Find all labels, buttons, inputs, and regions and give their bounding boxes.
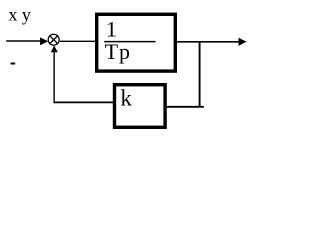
wire: feedback tap down	[199, 42, 201, 107]
wire: feedback horizontal left segment	[54, 101, 115, 103]
wire: summing junction to block 1/Tp	[60, 40, 96, 42]
svg-text:x y: x y	[8, 5, 31, 25]
wire: output of 1/Tp	[177, 41, 240, 43]
wire: feedback riser up to summing junction	[53, 52, 55, 103]
svg-text:k: k	[120, 86, 132, 111]
sign: minus on feedback input	[11, 63, 16, 65]
wire: input	[6, 40, 41, 42]
svg-text:1: 1	[106, 17, 117, 42]
arrowhead: input into summing junction	[40, 37, 48, 45]
arrowhead: feedback into summing junction bottom	[51, 46, 58, 53]
block K1: feedback gain k	[115, 85, 166, 128]
svg-text:Tp: Tp	[105, 39, 131, 64]
arrowhead: output	[239, 38, 247, 46]
wire: feedback horizontal right segment	[164, 106, 204, 108]
block U1: transfer function 1/Tp	[97, 14, 176, 71]
summing junction	[48, 34, 59, 45]
